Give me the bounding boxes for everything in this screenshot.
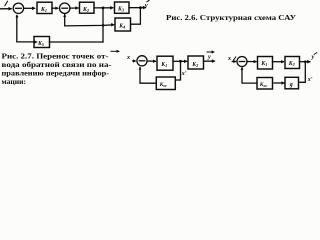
summing junction S2 xyxy=(59,3,69,13)
svg-text:x: x xyxy=(227,55,231,62)
wire output tap down to g block xyxy=(300,62,306,83)
wire K2b to output xyxy=(300,61,310,63)
wire Koc A to SA xyxy=(140,68,156,84)
svg-text:K2: K2 xyxy=(191,62,198,68)
wire bottom feedback to K5 xyxy=(50,41,104,43)
svg-text:K5: K5 xyxy=(37,41,44,47)
svg-text:y: y xyxy=(207,53,211,60)
block K4 xyxy=(115,18,131,31)
block K2 xyxy=(80,2,95,13)
block K2 diagram B xyxy=(285,57,300,69)
block K1 diagram A xyxy=(157,56,173,70)
wire K1a to K2a xyxy=(173,60,186,62)
wire input to S1 xyxy=(0,8,11,10)
wire K3 to output xyxy=(129,7,145,9)
svg-text:K1: K1 xyxy=(260,61,267,67)
node junction on inner feedback xyxy=(102,24,105,27)
block Koc diagram A xyxy=(156,77,175,90)
node y vector arrow diagram A xyxy=(207,51,213,53)
svg-text:g: g xyxy=(289,82,293,88)
wire S1 to K1 xyxy=(24,7,35,9)
svg-text:Kос: Kос xyxy=(259,82,268,88)
svg-text:Рис. 2.6. Структурная схема СА: Рис. 2.6. Структурная схема САУ xyxy=(166,14,297,22)
wire K1 to S2 xyxy=(52,7,58,9)
wire K5 to S1 xyxy=(17,16,34,42)
wire inner feedback to S2 xyxy=(65,15,114,26)
svg-text:K2: K2 xyxy=(82,7,89,13)
block K1 diagram B xyxy=(258,57,273,70)
block K1 xyxy=(37,2,52,13)
wire g to Koc B xyxy=(274,82,285,84)
summing junction S1 xyxy=(13,3,23,13)
node pickoff junction A xyxy=(179,60,182,63)
svg-text:x': x' xyxy=(181,71,187,77)
node tap junction after K2 xyxy=(102,7,105,10)
svg-text:x': x' xyxy=(307,77,313,83)
block K5 xyxy=(34,37,50,48)
wire Koc B to SB xyxy=(242,68,257,83)
block K2 diagram A xyxy=(188,56,204,69)
svg-text:K2: K2 xyxy=(288,61,295,67)
wire S2 to K2 xyxy=(70,7,78,9)
svg-text:мации:: мации: xyxy=(2,77,27,86)
node output junction xyxy=(139,6,142,9)
svg-text:K4: K4 xyxy=(118,23,125,29)
node x vector arrow diagram A xyxy=(111,50,118,52)
svg-text:K1: K1 xyxy=(40,7,47,13)
svg-text:K1: K1 xyxy=(160,62,167,68)
node f input label xyxy=(5,1,8,6)
svg-text:y: y xyxy=(144,2,148,9)
wire input to SA xyxy=(133,60,135,62)
svg-text:x: x xyxy=(126,54,130,61)
wire pickoff down to Koc A xyxy=(176,61,181,80)
wire K2a to output xyxy=(204,60,215,62)
wire output tap down to K4 xyxy=(131,8,140,25)
wire K2 to K3 xyxy=(94,7,113,9)
summing junction SB xyxy=(237,57,247,67)
block g diagram B xyxy=(285,77,299,89)
wire K1b to K2b xyxy=(273,61,284,63)
summing junction SA xyxy=(137,56,147,66)
wire SA to K1a xyxy=(147,60,155,62)
wire input to SB xyxy=(232,61,235,63)
svg-text:y: y xyxy=(311,54,315,61)
block Koc diagram B xyxy=(257,78,273,90)
svg-text:Kос: Kос xyxy=(159,82,168,88)
svg-text:K3: K3 xyxy=(117,7,124,13)
node output junction B xyxy=(304,60,307,63)
wire outer tap vertical xyxy=(102,8,104,42)
wire SB to K1b xyxy=(247,61,256,63)
block K3 xyxy=(115,2,130,13)
